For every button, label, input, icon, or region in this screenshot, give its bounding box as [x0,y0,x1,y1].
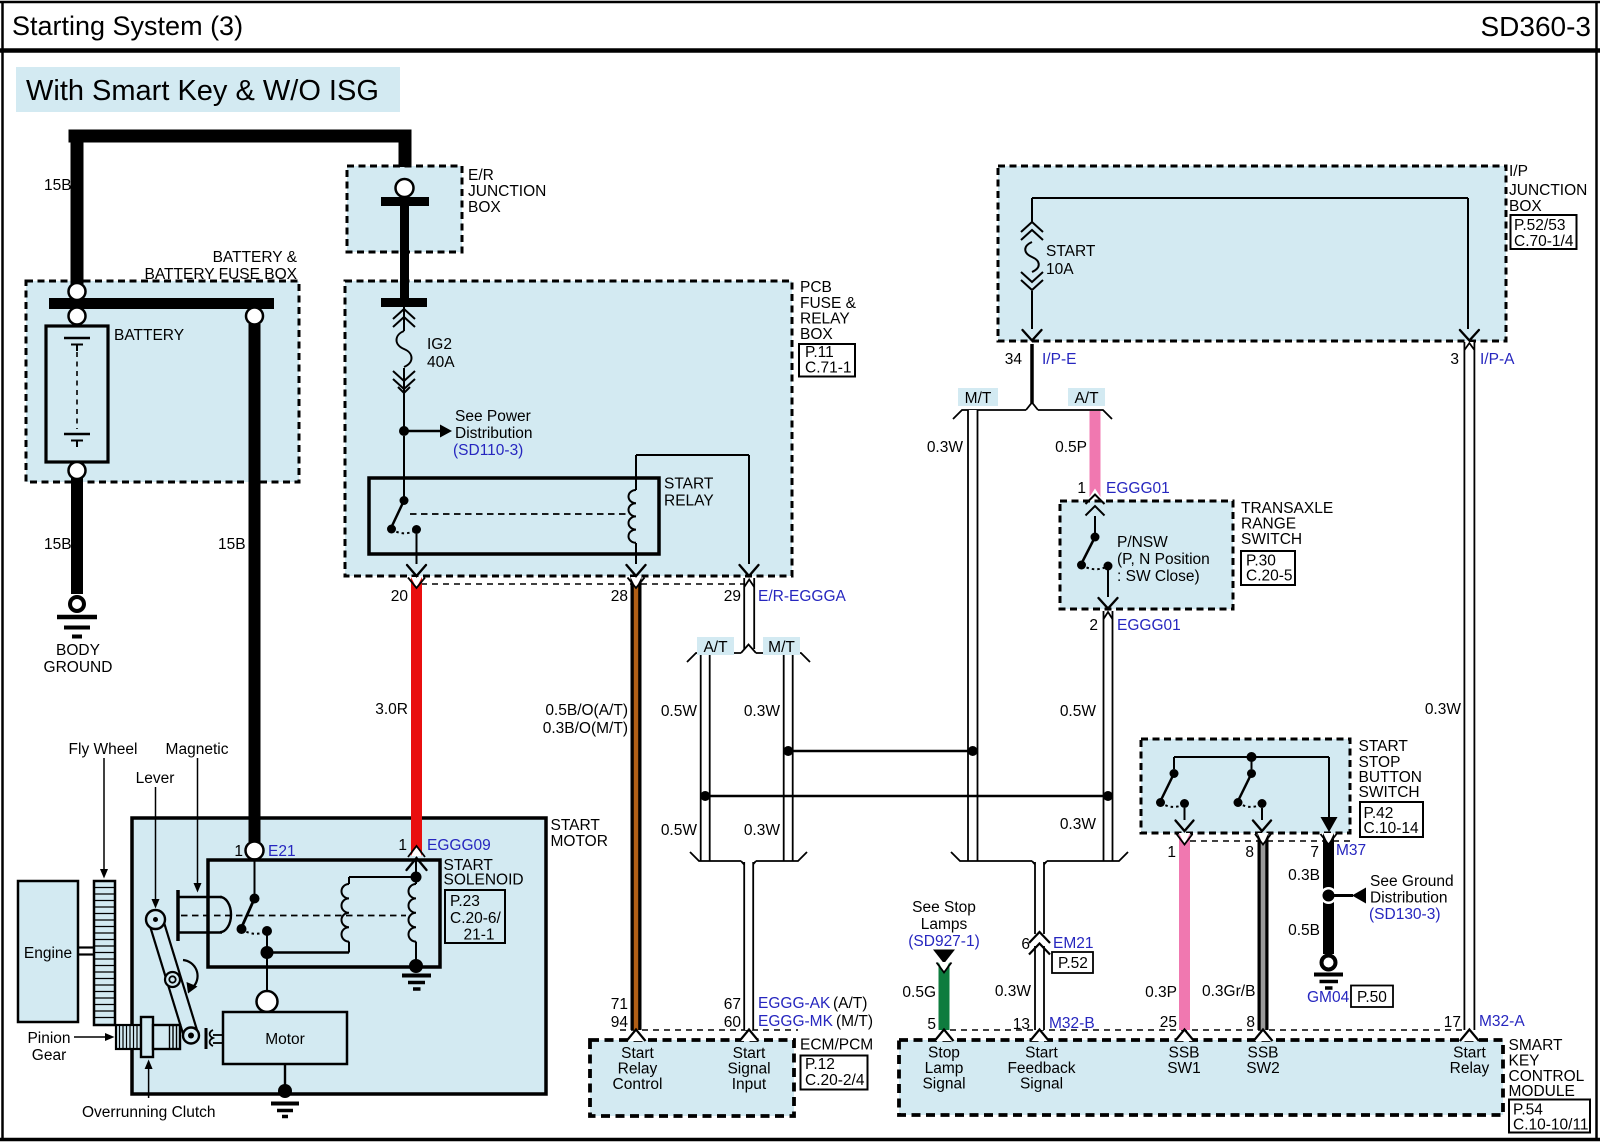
wire 15B left vertical to battery [71,136,84,284]
svg-text:P.52: P.52 [1058,955,1088,972]
transaxle range switch box [1060,501,1233,609]
wire link A/T to transaxle horizontal [705,795,1108,797]
svg-text:RELAY: RELAY [664,493,714,510]
svg-text:3: 3 [1450,351,1459,368]
svg-text:0.3W: 0.3W [1425,701,1462,718]
svg-text:P.50: P.50 [1357,989,1387,1006]
A/T M/T label chips under pin 29 [697,637,800,655]
connector row dashed line E/R-EGGGA [421,583,755,585]
svg-text:SD360-3: SD360-3 [1480,11,1591,42]
svg-text:RELAY: RELAY [800,311,850,328]
exit arrow pin 28 [627,565,646,576]
smart key control module box [899,1040,1503,1115]
svg-text:17: 17 [1444,1014,1461,1031]
exit arrow SSB pin 1 [1176,821,1194,832]
entry chevron SKCM pin 8 [1254,1030,1273,1042]
solenoid pull-in coil [342,877,350,953]
svg-text:Start: Start [1025,1045,1058,1062]
svg-text:FUSE &: FUSE & [800,295,857,312]
battery symbol [46,326,108,462]
fly wheel [94,881,115,1025]
svg-text:C.20-2/4: C.20-2/4 [805,1072,865,1089]
svg-text:SSB: SSB [1168,1045,1199,1062]
svg-text:GM04: GM04 [1307,989,1350,1006]
svg-text:RANGE: RANGE [1241,516,1296,533]
svg-text:10A: 10A [1046,261,1074,278]
svg-text:EGGG-AK: EGGG-AK [758,995,831,1012]
junction dot power distribution [399,426,409,436]
svg-text:0.5W: 0.5W [661,822,698,839]
svg-text:8: 8 [1245,844,1254,861]
wire 15B battery to start motor E21 [249,324,261,842]
svg-text:Starting System (3): Starting System (3) [12,11,243,41]
svg-text:SSB: SSB [1247,1045,1278,1062]
junction dot ground distribution [1320,887,1366,904]
overrunning clutch [141,1017,180,1057]
ref box P.54 C.10-10/11 [1509,1100,1590,1134]
svg-text:0.3W: 0.3W [995,983,1032,1000]
transaxle P/NSW switch [1077,516,1113,597]
svg-text:0.5B/O(A/T): 0.5B/O(A/T) [545,702,628,719]
svg-text:EGGG-MK: EGGG-MK [758,1013,834,1030]
svg-text:E/R-EGGGA: E/R-EGGGA [758,588,847,605]
connector row dashed line SKCM pins [950,1029,1462,1031]
svg-text:I/P: I/P [1509,163,1528,180]
wire white M/T branch from pin 34 [968,410,978,861]
svg-text:P.52/53: P.52/53 [1514,217,1565,234]
exit arrow SSB pin 8 [1253,821,1271,832]
svg-text:E/R: E/R [468,167,494,184]
svg-text:15B: 15B [44,177,72,194]
svg-text:SWITCH: SWITCH [1359,784,1420,801]
ref box P.11 C.71-1 [799,344,855,377]
motor terminal circle [257,991,278,1012]
I/P junction fuse START 10A [1021,198,1468,329]
svg-text:(A/T): (A/T) [833,995,867,1012]
wire black I/P-E pin 34 [1030,344,1034,403]
svg-text:With Smart Key & W/O ISG: With Smart Key & W/O ISG [26,75,379,107]
connector row dashed line M37 pins [1190,840,1352,842]
svg-text:SWITCH: SWITCH [1241,531,1302,548]
svg-text:94: 94 [611,1014,629,1031]
magnetic leader arrow [194,758,202,893]
svg-text:Start: Start [733,1045,766,1062]
svg-text:TRANSAXLE: TRANSAXLE [1241,500,1333,517]
engine shaft [78,948,94,955]
svg-text:Fly Wheel: Fly Wheel [69,741,138,758]
entry chevron ECM pin 67/60 [740,1030,759,1042]
svg-text:2: 2 [1089,617,1098,634]
ECM/PCM box [590,1040,794,1116]
merge symbol above ECM pin 67/60 [690,852,807,870]
svg-text:Stop: Stop [928,1045,960,1062]
start motor box [132,818,546,1094]
svg-text:Lamp: Lamp [925,1060,964,1077]
solenoid ground symbol [402,976,431,990]
lever arm [146,910,199,1044]
wire white M/T branch [784,653,793,861]
svg-text:Pinion: Pinion [27,1030,70,1047]
ref box P.42 C.10-14 [1360,802,1423,837]
svg-text:M32-A: M32-A [1479,1013,1525,1030]
solenoid coil ground dot [409,959,423,973]
ref box P.12 C.20-2/4 [801,1056,868,1090]
ground GM04 [1314,956,1343,989]
svg-text:1: 1 [1167,844,1176,861]
svg-text:Lever: Lever [136,770,175,787]
split symbol A/T-M/T under pin 29 [687,645,810,663]
svg-text:15B: 15B [44,536,72,553]
svg-text:Signal: Signal [1020,1076,1063,1093]
wire pink 0.3P SSB SW1 [1177,833,1193,1030]
svg-text:Signal: Signal [727,1061,770,1078]
start relay box [369,478,659,554]
start stop button switch box [1141,739,1350,833]
start relay mechanical dashed link [410,513,630,515]
junction dot transaxle link right [1103,791,1113,801]
exit arrow pin 34 [1023,330,1042,341]
solenoid plunger magnetic [177,890,232,941]
svg-text:ECM/PCM: ECM/PCM [800,1037,873,1054]
svg-text:P.23: P.23 [450,893,480,910]
svg-text:SMART: SMART [1509,1037,1564,1054]
svg-text:28: 28 [611,588,628,605]
svg-text:GROUND: GROUND [44,659,113,676]
wire 15B top bus horizontal [69,130,412,143]
battery terminal circle below bus [69,308,86,325]
svg-text:JUNCTION: JUNCTION [468,183,546,200]
junction dot A/T link left [700,791,710,801]
svg-text:Relay: Relay [1450,1060,1490,1077]
svg-text:60: 60 [724,1014,742,1031]
svg-text:MOTOR: MOTOR [551,833,608,850]
svg-text:EGGG01: EGGG01 [1106,480,1170,497]
svg-text:0.3Gr/B: 0.3Gr/B [1202,983,1255,1000]
svg-text:EGGG09: EGGG09 [427,837,491,854]
svg-text:M/T: M/T [768,639,795,656]
svg-text:BOX: BOX [1509,198,1542,215]
solenoid mechanical dashed link [181,915,406,917]
svg-text:BATTERY: BATTERY [114,327,184,344]
svg-text:Gear: Gear [32,1047,66,1064]
engine box [18,881,78,1022]
fuse IG2 40A [381,303,427,430]
overrunning clutch leader arrow [145,1060,153,1099]
svg-text:MODULE: MODULE [1509,1083,1575,1100]
wire gray 0.3Gr/B SSB SW2 [1255,833,1271,1030]
svg-text:Lamps: Lamps [921,916,968,933]
svg-text:15B: 15B [218,536,246,553]
wire battery to body ground [71,478,83,594]
svg-text:0.3P: 0.3P [1145,984,1177,1001]
svg-text:START: START [664,476,714,493]
svg-text:0.5W: 0.5W [661,703,698,720]
svg-text:See Power: See Power [455,408,531,425]
split symbol M/T-A/T under pin 34 [953,403,1112,420]
PCB fuse & relay box [345,281,792,576]
svg-text:1: 1 [398,837,407,854]
svg-text:0.3B/O(M/T): 0.3B/O(M/T) [543,720,628,737]
svg-text:40A: 40A [427,354,455,371]
wire white transaxle pin2 down [1104,611,1113,861]
svg-text:Signal: Signal [922,1076,965,1093]
svg-text:A/T: A/T [1074,390,1099,407]
pinion gear [116,1025,143,1049]
merge symbol above EM21 [951,852,1128,870]
wire relay coil loop to pin 29 [636,455,749,564]
svg-text:5: 5 [927,1016,936,1033]
lever rotation arrow [183,960,198,994]
wire fuse to relay switch [403,436,405,497]
svg-text:C.20-6/: C.20-6/ [450,910,502,927]
svg-text:START: START [551,817,601,834]
svg-text:34: 34 [1005,351,1023,368]
battery & battery fuse box [26,281,299,482]
fly wheel leader arrow [100,758,108,879]
svg-text:P.11: P.11 [805,344,834,361]
svg-text:1: 1 [234,843,243,860]
svg-text:C.70-1/4: C.70-1/4 [1514,233,1574,250]
svg-text:0.5P: 0.5P [1055,439,1087,456]
SSB switch internals [1156,752,1338,832]
svg-text:SW2: SW2 [1246,1060,1280,1077]
in-line connector EM21 chevrons [1029,932,1050,955]
svg-text:(M/T): (M/T) [836,1013,873,1030]
svg-text:0.3W: 0.3W [927,439,964,456]
svg-text:M/T: M/T [965,390,992,407]
svg-text:BODY: BODY [56,642,100,659]
E/R junction tap T-bar [381,197,429,206]
svg-text:M37: M37 [1336,842,1366,859]
svg-text:3.0R: 3.0R [375,701,408,718]
svg-text:See Stop: See Stop [912,899,976,916]
svg-text:29: 29 [724,588,741,605]
junction dot M/T link left [783,746,793,756]
solenoid hold-in coil [409,858,417,960]
svg-text:(SD927-1): (SD927-1) [908,933,980,950]
svg-text:21-1: 21-1 [464,927,495,944]
svg-text:Distribution: Distribution [1370,890,1448,907]
motor brush detail [206,1028,223,1049]
svg-text:8: 8 [1246,1014,1255,1031]
start solenoid box [208,860,440,967]
svg-text:Input: Input [732,1076,767,1093]
exit arrow transaxle pin 2 [1099,598,1118,609]
svg-text:1: 1 [1077,480,1086,497]
svg-text:Start: Start [621,1045,654,1062]
solenoid switch [237,860,350,992]
svg-text:EM21: EM21 [1053,935,1094,952]
svg-text:BOX: BOX [468,199,501,216]
wire brown 0.5B/O pin28 to ECM [628,577,645,1030]
svg-text:0.5W: 0.5W [1060,703,1097,720]
I/P junction box [998,166,1506,341]
svg-text:C.20-5: C.20-5 [1246,568,1293,585]
motor ground [271,1064,299,1117]
svg-text:0.3W: 0.3W [744,822,781,839]
svg-text:START: START [1046,243,1096,260]
svg-text:JUNCTION: JUNCTION [1509,182,1587,199]
battery terminal circle bottom [69,462,86,479]
ref box P.23 C.20-6/21-1 [445,890,505,944]
svg-text:Magnetic: Magnetic [166,741,229,758]
svg-text:BATTERY &: BATTERY & [213,249,298,266]
ref box P.30 C.20-5 [1241,551,1295,585]
svg-text:Overrunning Clutch: Overrunning Clutch [82,1104,216,1121]
stop lamp arrow triangle [933,950,955,964]
battery bus bar [49,298,274,309]
wire white A/T branch [701,653,710,861]
wire red 3.0R pin20 to start solenoid [408,577,425,857]
svg-text:EGGG01: EGGG01 [1117,617,1181,634]
battery terminal circle top [69,283,86,300]
svg-text:20: 20 [391,588,409,605]
svg-text:SW1: SW1 [1167,1060,1201,1077]
svg-text:0.3W: 0.3W [1060,816,1097,833]
see power distribution arrow [404,425,452,438]
svg-text:BOX: BOX [800,326,833,343]
entry chevron SKCM pin 5 [935,1030,954,1042]
E/R junction tap circle [396,179,414,197]
svg-text:Feedback: Feedback [1007,1060,1075,1077]
E21 terminal circle [246,842,264,860]
body ground symbol [57,597,97,637]
svg-text:C.71-1: C.71-1 [805,360,852,377]
exit arrow pin 29 [740,565,759,576]
svg-text:M32-B: M32-B [1049,1015,1095,1032]
svg-text:C.10-10/11: C.10-10/11 [1513,1117,1589,1134]
start relay switch [387,496,421,564]
svg-text:KEY: KEY [1509,1053,1540,1070]
wire link M/T horizontal [788,750,973,752]
junction dot solenoid coils [411,872,422,883]
svg-text:C.10-14: C.10-14 [1364,820,1420,837]
entry chevron solenoid EGGG09 [407,858,427,870]
subtitle banner [16,67,400,112]
svg-text:6: 6 [1021,936,1030,953]
svg-text:START: START [1359,738,1409,755]
svg-text:PCB: PCB [800,279,832,296]
svg-text:(P, N Position: (P, N Position [1117,551,1210,568]
svg-text:71: 71 [611,996,628,1013]
wire white merged to EM21 and pin13 [1035,862,1044,1030]
svg-text:Start: Start [1453,1045,1486,1062]
svg-text:(SD130-3): (SD130-3) [1369,906,1441,923]
svg-text:P/NSW: P/NSW [1117,534,1168,551]
ref box P.52/53 C.70-1/4 [1511,215,1577,250]
solenoid coil top link [349,876,416,878]
wire white pin29 E/R-EGGGA down to A/T-M/T split [744,578,754,649]
svg-text:: SW Close): : SW Close) [1117,568,1200,585]
svg-text:A/T: A/T [703,639,728,656]
entry chevron ECM pin 71/94 [627,1030,646,1042]
svg-text:7: 7 [1310,844,1319,861]
svg-text:0.3B: 0.3B [1288,867,1320,884]
wire pink 0.5P A/T branch [1086,411,1105,516]
M/T A/T label chips under pin 34 [958,388,1105,406]
svg-text:See Ground: See Ground [1370,873,1454,890]
wire E/R fuse tap stem [400,201,409,299]
start relay coil [629,455,637,564]
motor box [223,1012,347,1064]
connector row dashed line ECM pins [620,1029,798,1031]
svg-text:67: 67 [724,996,741,1013]
svg-text:Control: Control [613,1076,663,1093]
exit arrow pin 20 [407,565,426,576]
wire black 0.3B/0.5B pin7 to GM04 [1321,833,1337,954]
exit arrow pin 3 [1460,330,1479,341]
entry chevron SKCM pin 13 [1030,1030,1049,1042]
entry chevron SKCM pin 17 [1460,1030,1479,1042]
svg-text:Motor: Motor [265,1031,305,1048]
fuse tap circle on bus [246,308,263,325]
svg-text:SOLENOID: SOLENOID [444,872,524,889]
svg-text:E21: E21 [268,843,296,860]
E/R junction box [347,166,462,252]
svg-text:0.3W: 0.3W [744,703,781,720]
wire white merged to ECM pin 67/60 [744,862,753,1030]
wire green 0.5G stop lamp signal [937,962,952,1030]
svg-text:(SD110-3): (SD110-3) [453,442,523,459]
svg-text:IG2: IG2 [427,336,452,353]
svg-text:Engine: Engine [24,945,72,962]
svg-text:BATTERY FUSE BOX: BATTERY FUSE BOX [145,266,298,283]
junction dot M/T link right [968,746,978,756]
svg-text:Distribution: Distribution [455,425,533,442]
svg-text:0.5G: 0.5G [902,984,936,1001]
svg-text:Relay: Relay [618,1061,658,1078]
svg-text:I/P-A: I/P-A [1480,351,1515,368]
pinion gear leader arrow [74,1033,115,1041]
svg-text:I/P-E: I/P-E [1042,351,1076,368]
wire white I/P-A pin3 to SKCM pin17 [1464,342,1474,1030]
svg-text:25: 25 [1160,1014,1177,1031]
svg-text:13: 13 [1013,1016,1030,1033]
svg-text:0.5B: 0.5B [1288,922,1320,939]
wire 15B right vertical to E/R junction box [399,136,412,167]
svg-text:P.12: P.12 [805,1056,835,1073]
lever leader arrow [152,787,160,909]
entry chevron SKCM pin 25 [1175,1030,1194,1042]
